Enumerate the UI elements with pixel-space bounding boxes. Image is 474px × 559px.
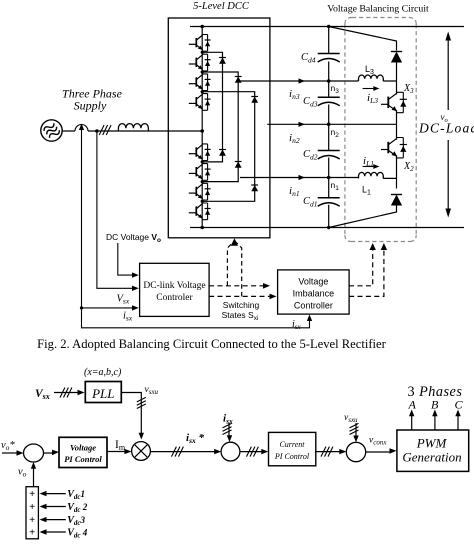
svg-text:Current: Current [279, 440, 305, 449]
svg-text:vconx: vconx [369, 436, 387, 447]
vdc4 input [45, 531, 66, 533]
5-Level DCC box [168, 18, 270, 238]
PLL output wire [121, 393, 141, 435]
L3 inductor [359, 75, 384, 81]
n1 tap wire [240, 177, 329, 179]
svg-text:in3: in3 [289, 88, 300, 101]
svg-text:Cd1: Cd1 [303, 196, 318, 209]
vs probe arc and arrow [75, 125, 88, 132]
vdc1 input [45, 493, 66, 495]
svg-text:B: B [431, 398, 439, 412]
svg-text:Vsx: Vsx [117, 294, 130, 306]
svg-text:X3: X3 [403, 83, 414, 95]
bottom diagonal wire [329, 206, 397, 228]
capacitor Cd2 [318, 151, 340, 160]
wire multiplier to S2 [150, 451, 216, 453]
IGBT X3 [381, 92, 407, 112]
svg-text:Cd2: Cd2 [303, 149, 318, 162]
svg-text:vsxu: vsxu [344, 413, 358, 424]
svg-text:L1: L1 [362, 185, 371, 197]
wire X3 to X2, n2 connection [329, 110, 397, 140]
svg-text:Vsx: Vsx [35, 388, 50, 401]
junction isx tap [95, 129, 99, 133]
svg-text:DC-link Voltage: DC-link Voltage [143, 281, 205, 291]
svg-text:PI Control: PI Control [64, 454, 102, 464]
clamp column 3 [202, 92, 255, 202]
wire S2 to current PI [240, 451, 263, 453]
top dc rail [190, 26, 464, 28]
voltage PI control box [59, 437, 107, 467]
svg-text:Generation: Generation [402, 450, 461, 465]
svg-text:in2: in2 [289, 132, 300, 145]
svg-text:n3: n3 [331, 83, 340, 95]
svg-text:+: + [29, 515, 35, 526]
n2 tap wire [267, 123, 328, 125]
svg-text:Cd4: Cd4 [301, 52, 316, 65]
capacitor Cd1 [318, 198, 340, 207]
svg-text:n1: n1 [331, 180, 340, 192]
summing node S2 [221, 442, 240, 461]
svg-text:PLL: PLL [91, 386, 114, 401]
vdc3 input [45, 519, 66, 521]
iL3 arrow [363, 88, 375, 90]
svg-text:Imbalance: Imbalance [293, 289, 335, 299]
svg-text:C: C [455, 398, 464, 412]
vo dc-load arrow [447, 37, 449, 212]
vsx sense wire [97, 131, 133, 288]
svg-text:Voltage Balancing Circuit: Voltage Balancing Circuit [327, 4, 429, 15]
clamp column 1 [202, 52, 222, 162]
svg-text:vsxu: vsxu [145, 385, 159, 396]
wire S3 to PWM [366, 451, 391, 453]
clamp column 2 [202, 72, 238, 182]
svg-text:in1: in1 [289, 185, 300, 198]
IGBT S8 [189, 203, 211, 220]
svg-text:+: + [29, 489, 35, 500]
dashed branch up to rectifier [227, 242, 233, 286]
diode D1 [391, 195, 402, 206]
current PI control box [269, 432, 316, 465]
svg-text:A: A [408, 398, 417, 412]
svg-text:Vdc 4: Vdc 4 [67, 528, 88, 540]
svg-text:L3: L3 [365, 64, 374, 76]
n3 wire to L3 [329, 80, 397, 82]
dc-link capacitor bus [328, 27, 330, 228]
wire current PI to S3 [316, 451, 341, 453]
wire S1 to voltage PI [44, 452, 54, 454]
three phase source symbol [41, 120, 62, 141]
imbalance dashed outputs to balancing circuit [349, 248, 373, 286]
svg-text:vo*: vo* [1, 440, 15, 452]
svg-text:PI Control: PI Control [274, 452, 310, 461]
svg-text:(x=a,b,c): (x=a,b,c) [84, 367, 122, 378]
IGBT S1 [189, 35, 211, 52]
iL1 arrow [363, 166, 375, 168]
svg-text:Controler: Controler [156, 293, 193, 303]
wire D3 to X3 [396, 63, 398, 95]
phase output arrows [411, 413, 413, 430]
bottom dc rail [190, 227, 464, 229]
chain junction dots [201, 51, 204, 54]
isx arrow into imbalance controller [307, 315, 312, 322]
n1 wire to L1 [329, 177, 397, 180]
dc voltage wire [118, 243, 133, 275]
summing node S3 [346, 442, 365, 461]
svg-text:iL1: iL1 [363, 155, 374, 168]
svg-text:Controller: Controller [294, 301, 333, 311]
svg-text:Cd3: Cd3 [303, 96, 318, 109]
svg-text:Fig. 2. Adopted Balancing Circ: Fig. 2. Adopted Balancing Circuit Connec… [37, 337, 386, 351]
svg-text:iL3: iL3 [367, 92, 378, 105]
node: top rail to balancing tap [327, 25, 330, 28]
svg-text:Voltage: Voltage [70, 443, 96, 453]
summing node S1 [24, 444, 44, 462]
svg-text:Voltage: Voltage [298, 277, 328, 287]
IGBT S4 [189, 94, 211, 111]
vdc2 input [45, 506, 66, 508]
Im wire to multiplier [107, 451, 126, 453]
svg-text:vo: vo [18, 467, 27, 479]
wire X2 to D1 [396, 155, 398, 188]
svg-text:Vdc1: Vdc1 [67, 489, 85, 501]
voltage balancing dashed box [345, 18, 416, 242]
svg-text:+: + [29, 528, 35, 539]
wire vsx to PLL [54, 392, 79, 394]
svg-text:Vdc 2: Vdc 2 [67, 502, 88, 514]
capacitor Cd3 [318, 97, 340, 106]
node: bottom rail to balancing tap [327, 226, 330, 229]
switching states dashed outputs [209, 285, 264, 287]
multiplier node [132, 442, 151, 461]
svg-text:Supply: Supply [74, 99, 107, 113]
isx sense wire [82, 131, 310, 328]
svg-text:n2: n2 [331, 127, 340, 139]
DC-link voltage controller box [140, 263, 210, 316]
IGBT S3 [189, 74, 211, 91]
svg-text:DC Voltage Vo: DC Voltage Vo [106, 232, 161, 244]
IGBT S5 [189, 144, 211, 161]
diode D3 [391, 52, 402, 63]
supply wire to converter [63, 130, 203, 132]
svg-text:DC-Load: DC-Load [418, 121, 474, 136]
averaging box [26, 487, 38, 539]
line inductor coil [118, 124, 148, 131]
capacitor Cd4 [318, 54, 340, 63]
three-phase slashes on supply wire [99, 125, 111, 135]
ac input node [200, 129, 204, 133]
svg-text:Im: Im [115, 439, 126, 452]
IGBT S6 [189, 164, 211, 181]
top diagonal wire [329, 27, 397, 51]
IGBT S7 [189, 183, 211, 200]
svg-text:Switching: Switching [223, 300, 260, 310]
voltage imbalance controller box [278, 270, 350, 314]
svg-text:isx: isx [123, 311, 133, 323]
L1 inductor [359, 172, 384, 178]
svg-text:PWM: PWM [416, 436, 448, 451]
chain vertical wire [201, 27, 203, 228]
IGBT S2 [189, 54, 211, 71]
svg-text:5-Level DCC: 5-Level DCC [193, 1, 250, 12]
svg-text:X2: X2 [403, 161, 414, 173]
PWM generation box [397, 430, 469, 471]
svg-text:States Sxi: States Sxi [222, 310, 259, 322]
svg-text:Vdc3: Vdc3 [67, 515, 85, 527]
n3 tap wire [240, 80, 329, 82]
svg-text:+: + [29, 502, 35, 513]
svg-text:isx *: isx * [186, 432, 204, 445]
svg-text:isx: isx [292, 319, 302, 331]
PLL box [85, 382, 121, 403]
IGBT X2 [381, 138, 407, 158]
